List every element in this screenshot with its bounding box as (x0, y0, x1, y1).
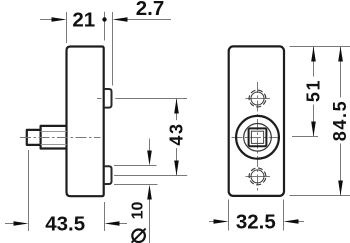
spindle collar inner lines (41, 132, 67, 145)
svg-text:32.5: 32.5 (236, 211, 276, 234)
bottom screw hole crosshair (246, 176, 271, 178)
dim 2.7 extension line (112, 12, 114, 86)
right view horizontal centerline (232, 137, 282, 139)
bottom tab (104, 166, 112, 184)
right middle extension line (292, 136, 318, 138)
left view body (67, 47, 104, 197)
dim 32.5 right arrow (284, 219, 299, 224)
svg-text:84.5: 84.5 (330, 100, 350, 141)
left view centerline (20, 137, 101, 139)
dim 2.7 dot line (104, 12, 106, 41)
dim 43.5 right arrow (105, 221, 120, 226)
dim 2.7 dot (102, 17, 106, 21)
dim 43.5 left arrow (5, 223, 14, 225)
dim 32.5 left extension line (228, 200, 230, 231)
square hole chamfer (251, 131, 263, 143)
dim 43 text (167, 120, 187, 148)
dim 51 text (304, 77, 324, 105)
right bottom extension line (290, 195, 350, 197)
spindle boss circle (236, 116, 279, 159)
dim O10 text (129, 202, 146, 220)
bottom screw hole (251, 170, 264, 183)
right top extension line (290, 46, 350, 48)
dim 51 line (313, 47, 315, 137)
dim 43.5 right extension line (104, 202, 106, 231)
tab top edge extension line (114, 165, 157, 167)
dim 43 top reference line (115, 98, 187, 100)
top screw hole crosshair (246, 98, 271, 100)
svg-text:10: 10 (129, 202, 146, 220)
dim 84.5 text (330, 98, 350, 144)
dim O10 lower arrow (147, 185, 152, 200)
svg-text:2.7: 2.7 (136, 0, 165, 20)
spindle tip (27, 130, 41, 145)
svg-text:43.5: 43.5 (45, 212, 85, 235)
dim 32.5 right extension line (283, 200, 285, 231)
right view vertical centerline (257, 82, 259, 192)
dim 21 extension line (66, 12, 68, 43)
square hole (249, 128, 267, 146)
svg-text:51: 51 (304, 79, 324, 102)
dim 43.5 left extension line (28, 150, 30, 231)
dim 43 bottom reference line (tab centerline) (114, 175, 187, 177)
dim 2.7 arrow (113, 17, 128, 22)
top tab centerline stub (97, 98, 102, 100)
right view body (229, 46, 284, 196)
spindle boss inner circle (244, 124, 272, 152)
svg-text:43: 43 (167, 122, 187, 145)
dim O10 upper arrow (149, 139, 151, 152)
svg-text:21: 21 (72, 8, 95, 31)
spindle collar (41, 126, 67, 149)
dim 84.5 line (340, 47, 342, 196)
tab bottom edge extension line (114, 184, 158, 186)
top tab (104, 89, 112, 108)
dim 43 line (176, 99, 178, 176)
top screw hole (251, 92, 264, 105)
dim 21 arrow (40, 19, 52, 21)
dim 32.5 left arrow (209, 221, 214, 223)
